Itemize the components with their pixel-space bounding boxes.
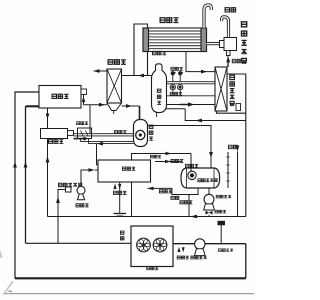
wire: return line y120.5 with left arrow (185, 109, 246, 121)
label: label near pump2 drop (180, 201, 183, 204)
wire: tower inlet from left pipe (26, 242, 132, 244)
wire: exchanger bottom to right vertical (217, 111, 246, 113)
valve circle on tank (188, 171, 196, 179)
wire: lower pipe pair with left arrow (81, 141, 134, 143)
label: label 稀溶液 (77, 122, 80, 125)
wire: condenser drain vertical x90 (89, 105, 91, 134)
wire: generator bottom down into heat exchanger with arrow (186, 52, 215, 72)
small box B (valve set) (78, 128, 92, 139)
pump2 冷温水泵 (204, 194, 214, 204)
wire: double solution pipe to pump (74, 133, 134, 135)
wire: vapor pipe generator top to condenser line (134, 24, 148, 76)
wire: line y153.5 from load box (132, 154, 192, 161)
drain symbol bar1 (114, 213, 127, 215)
label: label 蒸发器 (52, 94, 56, 98)
flow arrow on left pipe 1 (13, 162, 17, 168)
flow arrow on left pipe 2 (24, 162, 28, 168)
wire: main return line y216.5 (48, 216, 246, 218)
tower fan 2 (153, 238, 167, 252)
drain pipe below box with arrows (119, 182, 121, 213)
label: label 安全阀 (185, 164, 188, 167)
condensate candy-cane pipe (left) (204, 5, 211, 28)
nub on box right (81, 89, 87, 95)
wire: right vertical down + outer bottom loop (245, 244, 247, 279)
label: label inside flask vertical (157, 89, 161, 92)
drain symbol bar2 (117, 215, 124, 217)
wire: tank to pump2 (208, 188, 210, 194)
label: label 冷却水 (177, 256, 180, 259)
candy-cane pipe above 3-way valve (222, 17, 229, 38)
wire: line y75.5 into condenser with left arrow (122, 75, 153, 77)
condenser heat-exchanger box (107, 69, 122, 103)
label: label 稀溶液 under generator (152, 51, 156, 54)
generator tube bundle 发生器 (143, 28, 207, 52)
solution heat exchanger box (215, 67, 227, 111)
cooling water pump on line (195, 239, 205, 249)
label: label 止回阀 (215, 210, 218, 213)
label: label row2 (171, 196, 174, 199)
cooling tower box 冷却塔 (131, 226, 173, 267)
electric 3-way valve body (224, 38, 237, 51)
label: label 浓溶液 (114, 130, 117, 133)
steam pipe generator to valve (207, 42, 221, 45)
label: label 冷温水 (171, 159, 174, 162)
bottom-left dot (9, 290, 13, 293)
wire: box bottom drop x131.5 (131, 182, 133, 217)
wire: line y104.5 with big right arrow to heat exchanger (167, 104, 216, 106)
label: label 溶液热交换器 vertical (230, 75, 235, 79)
wire: exchanger right side to tall right pipe (227, 74, 246, 217)
check valve bowtie under pump2 (206, 211, 210, 215)
evaporator box 蒸发器 (39, 86, 81, 109)
wire: left vertical pipe #2 (25, 106, 27, 243)
condenser funnel bottom (107, 103, 122, 111)
flow arrow on x48 (46, 156, 50, 163)
label: label 采暖阀 (170, 92, 173, 95)
wire: riser right of box with up arrow (83, 95, 85, 105)
label: label 膨胀水箱 (219, 249, 222, 252)
left edge faint mark (0, 251, 2, 258)
label: label 冷温水泵 (216, 195, 219, 198)
wire: flask bottom stub (156, 112, 158, 117)
wire: condenser line down into pump (139, 106, 141, 120)
label: label 制冷阀 (171, 67, 174, 70)
bottom grey edge line (3, 293, 254, 295)
label: label 电动三通阀 (electric 3-way valve), vertical (241, 22, 246, 27)
wire: pump3 suction from bottom (58, 190, 66, 244)
label: label 冷(温)水泵 (58, 183, 62, 186)
wire: x237.5 vertical (237, 152, 239, 217)
small inline box on right pipe (236, 104, 241, 111)
bold arrow into box B (74, 138, 85, 140)
two stem valves (172, 75, 174, 82)
wire: chilled water line y92 to far-left pipe (15, 92, 39, 278)
label: label 凝水 (228, 145, 232, 148)
label: tiny label on line (150, 155, 153, 158)
label: label 空调房 (122, 167, 125, 170)
two round valves (172, 83, 174, 86)
wire: stem from line into tank valve (190, 154, 192, 172)
expansion tank on stick (218, 221, 226, 226)
wire+arrow: pump3 discharge into box left (81, 170, 89, 186)
wire+arrow: condenser top-left outflow (94, 70, 108, 72)
generator left end cap (143, 28, 149, 52)
label: label 发生器 (generator) (160, 18, 165, 23)
small up/down arrows right of tower (178, 247, 181, 252)
label: label 冷却水泵 (191, 256, 194, 259)
label: label on pipe left of tower (120, 231, 124, 234)
generator right end cap (201, 28, 207, 52)
label: label 贮液器 (49, 140, 53, 144)
label: label 冷却塔 (147, 267, 150, 270)
bottom-left diagonal smudge (4, 281, 14, 295)
solution pump vessel 溶液泵 (134, 120, 148, 147)
label: label 冷凝器 (condenser) (108, 60, 113, 65)
wire: vertical x96.5 from solution line down to box (97, 144, 99, 165)
wire: x48 long vertical to bottom loop (47, 139, 49, 217)
wire: thick line y106 to second left pipe (26, 105, 40, 107)
wire: condenser right to pump drop line (122, 105, 140, 107)
wire: left box to condenser bottom line (84, 104, 108, 106)
label: label 冷温水 row1 (159, 190, 162, 193)
wire: funnel stub (113, 111, 115, 115)
label: label 冷水泵 (76, 204, 79, 207)
wire: hatched drain pipe (227, 152, 229, 188)
wire: generator cap down to line (147, 52, 149, 76)
wire: line y161.5 into tank left (155, 161, 181, 163)
wire: lower header (167, 95, 216, 97)
pump3 motor+impeller (66, 187, 72, 192)
double pipe through valves (167, 81, 216, 83)
air-conditioned load box 空调房 (98, 160, 151, 182)
small box A 贮液器 (41, 129, 68, 139)
tank bottom left outlet with jog (189, 188, 198, 217)
steam inlet arrow 蒸汽 (227, 60, 229, 67)
wire: outer bottom pipe (15, 277, 246, 279)
label: label 补水/排水 (113, 191, 117, 194)
wire: tower outlet to right (173, 243, 246, 245)
tank 冷温水 vessel (181, 168, 220, 188)
tower fan 1 (137, 238, 151, 252)
wire: pump outlet line y125.5 down to tank (148, 126, 212, 169)
label: label 溶液泵 vertical (149, 125, 153, 128)
label: label 凝水 (condensate) (225, 8, 229, 12)
wire: steam riser above exchanger (227, 56, 229, 67)
wire: box down to small box A with down arrow (47, 108, 49, 129)
label: label inside tank 冷温水机组 (198, 179, 201, 182)
stub on box A right (68, 131, 74, 136)
label: label 蒸汽 (steam) (232, 59, 236, 62)
absorber flask vessel (152, 64, 167, 113)
